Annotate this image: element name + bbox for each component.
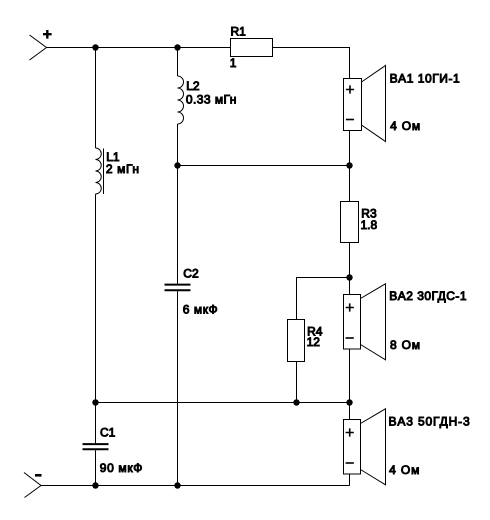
svg-text:BA3 50ГДН-3: BA3 50ГДН-3 xyxy=(389,414,471,428)
svg-text:4 Ом: 4 Ом xyxy=(390,119,421,133)
junction: top rail / L1 top xyxy=(92,44,98,50)
svg-text:90 мкФ: 90 мкФ xyxy=(100,461,143,475)
resistor R1 xyxy=(231,39,273,57)
wire: R4 bottom lead to node A rail xyxy=(296,362,298,403)
junction: mid rail / R3 top xyxy=(346,162,352,168)
wire: C1 bottom lead to bottom rail xyxy=(95,450,97,485)
svg-text:6 мкФ: 6 мкФ xyxy=(183,303,218,317)
capacitor C1 xyxy=(83,444,109,449)
wire: L1 bottom lead down to node A xyxy=(95,194,97,403)
speaker BA2 symbol xyxy=(344,284,386,360)
wire: L2 bottom lead to mid node xyxy=(177,124,179,166)
junction: node A rail / C1 top xyxy=(92,399,98,405)
svg-text:4 Ом: 4 Ом xyxy=(389,463,420,477)
svg-text:BA2 30ГДС-1: BA2 30ГДС-1 xyxy=(389,289,467,303)
junction: node A rail / R4 bottom xyxy=(293,399,299,405)
svg-text:BA1 10ГИ-1: BA1 10ГИ-1 xyxy=(390,72,461,86)
junction: node B R3/R4/BA2 xyxy=(346,274,352,280)
wire: BA2 minus pin down to node A rail xyxy=(349,349,351,403)
wire: R3 bottom pin to BA2 plus pin xyxy=(349,243,351,295)
svg-text:1: 1 xyxy=(230,56,237,70)
inductor L1 with core xyxy=(96,148,104,194)
junction: bottom rail / C2 bottom xyxy=(174,482,180,488)
wire: top rail from plus input to R1 left pin xyxy=(47,47,231,49)
speaker BA1 symbol xyxy=(344,66,386,142)
wire: C2 top lead from mid node xyxy=(177,166,179,284)
junction: top rail / L2 top xyxy=(174,44,180,50)
wire: L1 top lead xyxy=(95,48,97,149)
svg-text:C1: C1 xyxy=(100,426,116,440)
resistor R3 xyxy=(341,202,359,243)
wire: L2 top lead xyxy=(177,48,179,77)
svg-text:2 мГн: 2 мГн xyxy=(106,162,140,176)
capacitor C2 xyxy=(165,285,191,291)
wire: bottom rail from minus input to BA3 xyxy=(41,485,350,487)
wire: mid rail from L2 node to BA1/R3 node xyxy=(178,165,350,167)
svg-text:R1: R1 xyxy=(231,25,247,39)
junction: node A rail / BA3 top xyxy=(346,399,352,405)
junction: mid rail / C2 top xyxy=(174,162,180,168)
wire: R4 top lead to node B xyxy=(297,278,350,320)
wire: R1 right pin to BA1 plus pin xyxy=(273,48,350,79)
wire: BA3 minus pin down to bottom rail xyxy=(349,474,351,486)
svg-text:1.8: 1.8 xyxy=(361,218,378,232)
terminal X2 minus input xyxy=(24,473,42,498)
speaker BA3 symbol xyxy=(344,409,386,485)
terminal X1 plus input xyxy=(30,30,52,60)
wire: BA3 plus pin lead xyxy=(349,403,351,420)
svg-text:12: 12 xyxy=(307,335,321,349)
svg-text:C2: C2 xyxy=(183,266,199,280)
junction: bottom rail / C1 bottom xyxy=(92,482,98,488)
wire: BA1 minus pin down to R3 top pin xyxy=(349,131,351,202)
resistor R4 xyxy=(288,320,305,362)
svg-text:8 Ом: 8 Ом xyxy=(390,338,421,352)
inductor L2 xyxy=(178,76,184,124)
wire: node A rail from L1/C1 to BA3 top xyxy=(96,402,350,404)
svg-text:L2: L2 xyxy=(186,79,200,93)
wire: C1 top lead from node A xyxy=(95,403,97,444)
wire: C2 bottom lead down to bottom rail xyxy=(177,291,179,485)
svg-text:0.33 мГн: 0.33 мГн xyxy=(186,93,237,107)
